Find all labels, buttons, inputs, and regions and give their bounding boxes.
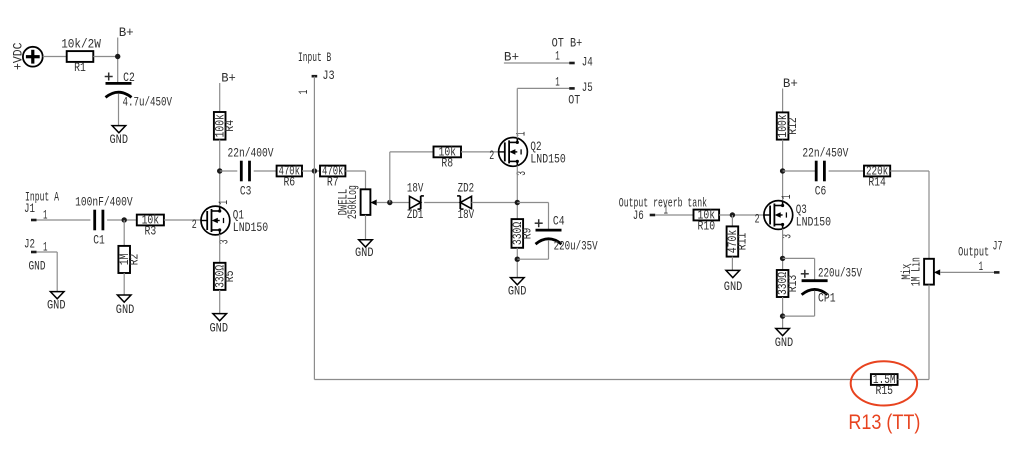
capacitor CP1 [801,265,862,305]
wire CP1 branch down [814,258,816,280]
ground below R13 [775,329,794,351]
wire +VDC to R1 [43,56,67,58]
ground below R9 [508,278,527,299]
wire node to R11 [731,215,733,226]
svg-text:GND: GND [355,245,374,260]
ground below R11 [724,270,743,294]
svg-text:100nF/400V: 100nF/400V [75,195,133,210]
ground below R5 [210,314,229,336]
capacitor C4 [535,214,598,254]
connector J3 [296,68,335,94]
svg-text:OT B+: OT B+ [552,36,583,51]
wire C1 to node [107,219,137,221]
svg-text:R6: R6 [283,175,295,190]
svg-text:2: 2 [755,211,760,226]
connector J4 [555,49,593,70]
capacitor C6 [802,146,848,199]
svg-text:R13: R13 [785,275,800,293]
wire ZD2 to Q2 source node [472,202,518,204]
wire J6 to R10 [655,214,693,216]
wire R9 to ground [516,248,518,278]
svg-text:Mix: Mix [899,264,914,280]
wire right rail down to Mix pot [928,171,930,259]
junction node wiper / ZD1 / R8 [387,200,392,205]
wire R4 to Q1 drain [219,140,221,207]
svg-text:3: 3 [514,171,529,176]
wire R13 to ground [782,297,784,329]
junction node C1 / R3 / R2 [122,217,127,222]
svg-text:18V: 18V [407,181,424,196]
svg-text:22n/400V: 22n/400V [228,146,274,161]
svg-text:C6: C6 [815,183,827,198]
wire Q2 source down to R9 [516,166,518,220]
svg-text:GND: GND [116,302,135,317]
ground below R2 [116,295,135,317]
wire B+ to R4 [219,83,221,112]
svg-text:1: 1 [216,200,231,205]
wire J3 long vertical to bottom run [313,77,315,380]
resistor R10 [694,208,720,234]
svg-text:3: 3 [217,240,232,245]
wire J1 to C1 [37,219,91,221]
svg-text:DWELL: DWELL [336,189,351,216]
svg-text:J3: J3 [322,68,334,83]
svg-text:1: 1 [296,90,311,95]
resistor R3 [137,213,164,239]
svg-text:ZD1: ZD1 [407,207,424,222]
wire C4 to bottom node [548,240,550,259]
svg-text:4.7u/450V: 4.7u/450V [123,94,173,109]
resistor R12 [775,112,800,139]
svg-text:Output: Output [958,245,989,260]
resistor R1 [67,51,94,75]
connector J6 [633,202,668,223]
potentiometer DWELL 250kLog [336,185,377,219]
wire CP1 to bottom node [814,291,816,316]
wire C6 to R14 [829,170,864,172]
svg-text:1: 1 [514,131,529,136]
svg-text:J5: J5 [582,80,593,95]
resistor R6 [277,164,302,190]
svg-text:OT: OT [568,92,580,107]
svg-text:ZD2: ZD2 [458,181,475,196]
connector J5 [555,74,593,95]
resistor R2 [117,246,142,273]
svg-text:R2: R2 [127,254,142,266]
resistor R9 [510,219,535,248]
resistor R8 [434,145,462,171]
svg-text:C2: C2 [123,70,135,85]
svg-text:J6: J6 [633,208,644,223]
svg-text:GND: GND [775,335,794,350]
svg-text:1: 1 [555,74,560,89]
wire to J5 [517,87,569,89]
wire J2 horizontal [37,251,58,253]
wire Mix wiper to J7 [940,271,994,273]
junction node B+ / R1 / C2 [115,54,120,59]
wire node to C6 [783,170,817,172]
capacitor C3 [228,146,274,199]
wire pot to ground [365,215,367,240]
svg-text:LND150: LND150 [796,214,831,229]
wire Q3 source down to R13 [782,229,784,270]
wire R2 to ground [123,273,125,295]
wire C3 to R6 [254,170,277,172]
power source +VDC [23,47,43,67]
zener diode ZD2 [457,181,474,222]
svg-text:22n/450V: 22n/450V [802,146,848,161]
junction node R13 / CP1 bottom [780,313,785,318]
svg-text:GND: GND [210,321,229,336]
connector J1 [24,201,48,222]
wire B+ to R12 [782,89,784,113]
wire wiper node up [389,152,391,203]
svg-text:GND: GND [110,132,129,147]
svg-text:R13 (TT): R13 (TT) [848,410,920,434]
ground below C2 [110,126,129,147]
svg-text:J7: J7 [993,238,1003,253]
svg-text:Input B: Input B [298,50,331,65]
junction node Q2 source / zeners / R9 / C4 [515,200,520,205]
junction node R6 / R7 / Input B [312,168,317,173]
svg-text:R12: R12 [785,117,800,135]
wire Q1 source to R5 [219,234,221,262]
svg-text:1: 1 [779,194,794,199]
wire R6 to R7 [302,170,320,172]
svg-text:GND: GND [47,298,66,313]
svg-text:18V: 18V [458,207,475,222]
wire pot wiper to ZD1 [377,202,410,204]
wire bottom run to R15 [314,379,871,381]
potentiometer Mix 1M Lin [899,257,940,286]
wire to R8 [390,151,434,153]
junction node R9 / C4 bottom [515,257,520,262]
wire down to DWELL pot [365,171,367,189]
wire R14 to right rail [890,170,929,172]
svg-text:R11: R11 [735,233,750,251]
wire R11 to ground [731,257,733,271]
wire R5 to ground [219,290,221,314]
svg-text:J4: J4 [582,54,593,69]
svg-text:B+: B+ [504,50,519,65]
red annotation ellipse around R15 [851,361,917,405]
wire CP1 bottom to R13 bottom [783,315,815,317]
svg-text:J1: J1 [24,201,35,216]
svg-text:C3: C3 [240,183,252,198]
svg-text:B+: B+ [119,25,134,40]
junction node Q3 source / R13 / CP1 [780,256,785,261]
svg-text:R7: R7 [327,175,339,190]
capacitor C2 [105,70,172,110]
svg-text:R15: R15 [875,383,893,398]
svg-text:R3: R3 [145,224,157,239]
svg-text:LND150: LND150 [233,220,268,235]
wire node to C4 branch [517,202,548,204]
transistor Q1 [192,200,269,244]
wire R15 to right rail [898,379,929,381]
wire R10 to Q3 gate [719,214,764,216]
junction node R4 / C3 / Q1 drain [217,168,222,173]
svg-text:GND: GND [724,279,743,294]
wire node to CP1 branch [783,257,815,259]
svg-text:GND: GND [508,284,527,299]
svg-text:LND150: LND150 [530,151,565,166]
svg-text:R4: R4 [222,120,237,132]
svg-text:B+: B+ [783,76,798,91]
junction node R10 / R11 / Q3 gate [730,212,735,217]
wire C4 branch down [548,203,550,231]
capacitor C1 [75,195,133,248]
wire R7 right [345,170,365,172]
wire R8 to Q2 gate [461,151,499,153]
svg-text:2: 2 [489,148,494,163]
wire Q2 drain up [516,88,518,138]
svg-text:R9: R9 [520,228,535,240]
svg-text:GND: GND [29,259,46,274]
resistor R13 [775,270,800,297]
wire R1 to node B+ [93,56,117,58]
svg-text:2: 2 [192,217,197,232]
resistor R4 [212,112,237,140]
wire node to R2 [123,220,125,246]
connector J7 [979,238,1003,274]
svg-text:3: 3 [780,234,795,239]
wire ZD1 to ZD2 [424,202,460,204]
svg-text:220u/35V: 220u/35V [818,265,862,280]
wire R12 to Q3 drain [782,140,784,202]
svg-text:C4: C4 [553,214,565,229]
resistor R14 [864,164,890,190]
wire C4 bottom to R9 bottom [517,258,548,260]
transistor Q3 [755,194,832,238]
wire C2 to ground [118,94,120,126]
svg-text:R1: R1 [74,60,86,75]
svg-text:1: 1 [979,259,984,274]
wire R3 to Q1 gate [164,219,201,221]
connector J2 [24,237,48,255]
svg-text:R14: R14 [868,175,886,190]
svg-text:C1: C1 [93,232,105,247]
svg-text:220u/35V: 220u/35V [554,239,598,254]
svg-text:10k/2W: 10k/2W [61,36,101,51]
junction node R12 / C6 / Q3 drain [780,168,785,173]
resistor R7 [320,164,345,190]
resistor R5 [212,263,237,290]
resistor R15 [871,372,898,398]
transistor Q2 [489,131,566,175]
svg-text:CP1: CP1 [818,291,836,306]
wire Mix pot bottom down [928,285,930,380]
svg-text:B+: B+ [221,70,236,85]
wire node to C3 [220,170,238,172]
svg-text:J2: J2 [24,237,35,252]
ground below J2 [47,292,66,313]
svg-text:+VDC: +VDC [11,42,26,70]
resistor R11 [725,226,750,256]
zener diode ZD1 [407,181,424,222]
wire B+ to J4 [504,62,569,64]
svg-text:R10: R10 [698,219,716,234]
svg-text:1: 1 [555,49,560,64]
svg-text:R5: R5 [222,271,237,283]
wire J2 down to ground [56,252,58,292]
ground below DWELL pot [355,240,374,260]
wire B+ down to C2 [117,38,119,84]
svg-text:R8: R8 [441,156,453,171]
